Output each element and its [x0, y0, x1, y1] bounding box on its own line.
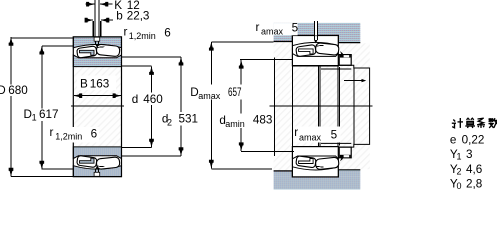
svg-text:1,2min: 1,2min — [129, 31, 156, 41]
svg-text:22,3: 22,3 — [127, 10, 150, 23]
svg-text:680: 680 — [8, 84, 28, 97]
svg-text:amax: amax — [198, 91, 221, 101]
svg-text:460: 460 — [143, 93, 163, 106]
svg-text:r: r — [50, 126, 54, 139]
svg-text:4,6: 4,6 — [466, 163, 482, 176]
svg-text:657: 657 — [228, 86, 242, 99]
svg-text:0: 0 — [457, 181, 462, 191]
svg-text:r: r — [294, 126, 298, 139]
svg-text:2,8: 2,8 — [466, 178, 482, 191]
svg-text:6: 6 — [164, 26, 171, 39]
svg-text:r: r — [256, 21, 260, 34]
svg-text:r: r — [124, 26, 128, 39]
svg-text:5: 5 — [331, 128, 338, 141]
svg-text:1: 1 — [32, 112, 37, 122]
svg-text:617: 617 — [39, 108, 59, 121]
svg-text:amax: amax — [261, 27, 284, 37]
svg-text:D: D — [0, 84, 6, 97]
svg-text:6: 6 — [91, 128, 98, 141]
svg-text:amax: amax — [299, 133, 322, 143]
svg-text:2: 2 — [457, 166, 462, 176]
svg-text:5: 5 — [292, 22, 299, 35]
svg-text:d: d — [132, 93, 139, 106]
svg-text:b: b — [116, 10, 123, 23]
svg-text:1: 1 — [457, 152, 462, 162]
svg-text:e: e — [450, 134, 457, 147]
svg-text:0,22: 0,22 — [462, 134, 485, 147]
svg-text:2: 2 — [167, 117, 172, 127]
svg-text:amin: amin — [225, 119, 245, 129]
svg-text:1,2min: 1,2min — [55, 132, 82, 142]
svg-text:B: B — [80, 77, 88, 90]
svg-text:3: 3 — [466, 148, 473, 161]
svg-text:483: 483 — [253, 114, 273, 127]
svg-text:531: 531 — [179, 112, 199, 125]
svg-text:163: 163 — [90, 77, 110, 90]
